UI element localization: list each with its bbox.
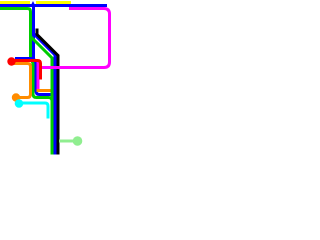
- green line diagonal branch + south trunk: [31, 37, 53, 155]
- magenta line: big loop top/right/bottom: [38, 9, 110, 68]
- black line: stub, diagonal, south trunk: [37, 29, 58, 155]
- blue line top horizontal: [0, 4, 107, 7]
- red terminus dot: [7, 57, 15, 65]
- pale green terminus dot: [73, 136, 83, 146]
- cyan terminus dot: [15, 99, 24, 108]
- blue junction wedge at top: [30, 1, 36, 7]
- yellow line west segment: [0, 1, 30, 4]
- pale green branch line: [59, 140, 73, 143]
- blue line diagonal + south trunk: [34, 6, 56, 155]
- blue line: west spur to red dot: [15, 57, 34, 60]
- yellow line east segment: [36, 1, 71, 4]
- orange line: east branch to trunk: [37, 89, 51, 92]
- red line: horizontal and south stub: [14, 61, 41, 80]
- orange line: from red dot, south, hook west: [13, 64, 31, 98]
- cyan line: from dot east then south: [20, 103, 48, 119]
- green line west branch: top horizontal, west vertical, U-turn east to trunk: [0, 9, 52, 107]
- blue line west branch: vertical, U-turn east to trunk: [34, 32, 56, 104]
- magenta line: west vertical segment: [37, 60, 40, 91]
- orange terminus dot: [12, 93, 20, 101]
